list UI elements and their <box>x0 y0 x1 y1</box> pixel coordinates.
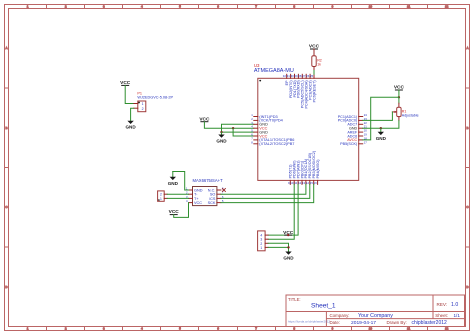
wire MAX6675 GND pin to ground <box>173 172 189 191</box>
wire VCC down to junction <box>398 90 400 97</box>
U3 top pin stubs <box>287 74 314 78</box>
svg-text:Drawn By:: Drawn By: <box>387 320 407 325</box>
ground (above MAX6675) <box>168 172 179 186</box>
svg-text:Adjustable: Adjustable <box>402 114 419 118</box>
wire U3 GND pin 3 to GND pin 5 <box>222 124 254 132</box>
wire J1 row 1 <box>268 246 288 248</box>
U3 bottom pin stubs <box>290 180 317 184</box>
svg-text:WJ2EDGVC-5.08-2P: WJ2EDGVC-5.08-2P <box>137 95 173 99</box>
svg-text:Date:: Date: <box>330 320 341 325</box>
svg-text:17: 17 <box>364 140 368 144</box>
svg-text:GND: GND <box>376 136 387 141</box>
junction <box>287 246 289 248</box>
svg-text:1.0: 1.0 <box>451 302 458 308</box>
svg-text:Sheet:: Sheet: <box>435 313 448 318</box>
svg-text:1: 1 <box>142 102 144 106</box>
svg-text:16: 16 <box>314 181 318 185</box>
svg-text:12: 12 <box>445 5 449 9</box>
wire T- <box>167 193 188 195</box>
wire SO to U3 <box>221 184 306 194</box>
svg-text:TITLE:: TITLE: <box>288 297 301 302</box>
wire R2 to U3 reset pin <box>313 71 315 75</box>
svg-text:10: 10 <box>369 5 373 9</box>
wire junction to R1 top <box>398 97 400 103</box>
wire junction to AVCC pin <box>363 97 399 140</box>
svg-text:B: B <box>5 126 7 130</box>
wire SCK to U3 <box>221 184 314 202</box>
IC U3 ATMEGA8A-MU <box>254 63 359 180</box>
svg-text:1: 1 <box>260 246 262 250</box>
wire junction to U3 VCC pin 6 <box>233 128 254 136</box>
wire VCC-left to U3 VCC pin 4 <box>204 122 253 129</box>
ground (J1) <box>283 252 294 261</box>
svg-text:11: 11 <box>407 327 410 331</box>
svg-text:11: 11 <box>407 5 410 9</box>
power flag VCC (near P1) <box>120 80 131 86</box>
U3 pin numbers <box>251 74 367 185</box>
wire P1 pin 2 to GND <box>131 108 134 121</box>
power flag VCC (J1) <box>283 230 294 236</box>
ground (below P1) <box>125 121 136 130</box>
U3 right pin stubs <box>359 117 363 144</box>
thermocouple connector <box>158 191 168 201</box>
connector J1 (4 pin) <box>258 231 269 251</box>
title block <box>286 295 465 327</box>
wire VCC to P1 pin 1 <box>125 85 134 103</box>
junction <box>287 234 289 236</box>
U3 left pin names <box>259 115 294 146</box>
wire U3 pin to connector row 4 <box>268 184 298 235</box>
svg-text:2019-04-17: 2019-04-17 <box>351 320 376 326</box>
svg-text:chipblaster2012: chipblaster2012 <box>412 320 448 326</box>
wire R1 bottom to GND row <box>363 121 399 129</box>
junction <box>232 127 234 129</box>
svg-text:REV:: REV: <box>437 302 448 307</box>
power flag VCC (above R2) <box>309 44 320 50</box>
resistor R2 <box>312 49 322 71</box>
power flag VCC (right, above R1) <box>394 85 405 91</box>
ground (left of U3) <box>216 132 227 143</box>
svg-text:(XTAL2/TOSC2)PB7: (XTAL2/TOSC2)PB7 <box>259 142 294 146</box>
svg-text:10: 10 <box>369 327 373 331</box>
svg-text:A: A <box>466 46 468 50</box>
MAIN SCHEMATIC <box>120 44 418 261</box>
wire VCC to MAX6675 VCC pin <box>174 203 189 218</box>
wire J1 row 2 to GND <box>268 243 288 251</box>
svg-text:GND: GND <box>125 125 136 130</box>
svg-text:PB5(SCK): PB5(SCK) <box>340 142 357 146</box>
junction <box>220 131 222 133</box>
svg-text:B: B <box>466 126 468 130</box>
svg-text:1k: 1k <box>317 62 321 66</box>
svg-text:https://lceda.cn/chipblaster20: https://lceda.cn/chipblaster2012 <box>288 319 331 323</box>
svg-text:1: 1 <box>160 197 162 201</box>
svg-text:12: 12 <box>445 327 449 331</box>
svg-text:GND: GND <box>168 181 179 186</box>
svg-text:2: 2 <box>142 107 144 111</box>
power flag VCC (left of U3) <box>199 116 210 122</box>
svg-text:GND: GND <box>216 138 227 143</box>
junction <box>398 96 400 98</box>
ground (right of U3) <box>376 128 387 141</box>
U3 right pin names <box>338 115 358 146</box>
connector P1 <box>134 92 174 112</box>
power flag VCC (below MAX6675) <box>169 209 180 215</box>
no-connect flag on N.C. pin <box>222 189 225 192</box>
svg-text:PB4(MISO): PB4(MISO) <box>316 160 320 179</box>
svg-text:1/1: 1/1 <box>454 313 461 318</box>
svg-text:Your Company: Your Company <box>358 313 393 319</box>
svg-text:MAX6675ISA+T: MAX6675ISA+T <box>193 178 224 183</box>
svg-text:SCK: SCK <box>208 201 216 205</box>
svg-text:GND: GND <box>283 256 294 261</box>
wire R1 wiper to U3 pin <box>363 112 393 121</box>
wire T+ <box>167 197 188 199</box>
svg-text:25: 25 <box>310 74 314 78</box>
svg-text:A: A <box>5 46 7 50</box>
wire /CS to U3 <box>221 184 310 198</box>
svg-text:Company:: Company: <box>330 313 350 318</box>
U3 bottom pin names (vertical) <box>289 151 320 178</box>
junction <box>380 127 382 129</box>
svg-text:VCC: VCC <box>194 201 202 205</box>
U3 left pin stubs <box>254 117 258 144</box>
U3 top pin names (vertical) <box>285 80 316 109</box>
svg-text:PC6(RESET): PC6(RESET) <box>312 80 316 102</box>
wire U3 pin to connector row 3 <box>268 184 294 239</box>
resistor R1 (adjustable) <box>392 103 418 120</box>
svg-text:Sheet_1: Sheet_1 <box>311 303 336 310</box>
svg-text:10: 10 <box>290 181 294 185</box>
IC MAX6675ISA+T <box>186 178 224 206</box>
